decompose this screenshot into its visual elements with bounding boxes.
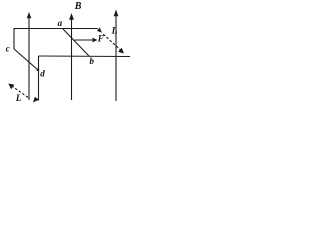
svg-text:a: a [58, 18, 63, 28]
svg-text:B: B [74, 1, 82, 12]
svg-text:d: d [40, 69, 45, 79]
svg-text:L: L [111, 26, 118, 36]
svg-text:c: c [6, 43, 10, 53]
svg-text:F: F [97, 33, 104, 43]
svg-text:b: b [90, 56, 95, 66]
svg-text:L: L [15, 94, 22, 104]
